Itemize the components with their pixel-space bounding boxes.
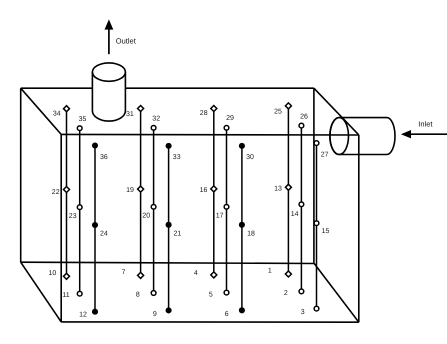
sensor 9 (filled)	[153, 307, 172, 318]
svg-text:18: 18	[247, 230, 255, 237]
sensor 27 (circle)	[314, 141, 328, 159]
svg-text:35: 35	[79, 116, 87, 123]
sensor 4 (diamond)	[194, 270, 217, 278]
svg-text:22: 22	[52, 189, 60, 196]
probe line A-filled	[94, 146, 96, 312]
sensor 22 (diamond)	[52, 187, 70, 196]
front-top edge	[61, 133, 359, 136]
sensor 12 (filled)	[79, 309, 98, 319]
top-right slant edge	[314, 88, 359, 135]
probe line D-circle	[300, 126, 302, 292]
sensor 31 (diamond)	[126, 106, 144, 118]
top-left slant edge	[21, 88, 62, 134]
bottom-left slant edge	[21, 262, 62, 322]
sensor 24 (filled)	[92, 222, 108, 237]
probe line C-circle	[226, 128, 228, 293]
svg-text:36: 36	[100, 154, 108, 161]
inlet pipe cylinder	[330, 118, 395, 155]
sensor 23 (circle)	[69, 205, 82, 220]
sensor 21 (filled)	[166, 222, 182, 238]
svg-text:28: 28	[200, 110, 208, 117]
svg-text:21: 21	[174, 230, 182, 237]
sensor 3 (circle)	[301, 306, 319, 316]
svg-text:19: 19	[126, 187, 134, 194]
svg-text:6: 6	[225, 311, 229, 318]
probe line A-circle	[79, 128, 81, 294]
svg-text:24: 24	[100, 230, 108, 237]
svg-text:3: 3	[301, 309, 305, 316]
svg-text:Inlet: Inlet	[418, 120, 433, 129]
svg-text:10: 10	[49, 270, 57, 277]
svg-text:30: 30	[246, 154, 254, 161]
front-bottom edge	[61, 321, 359, 323]
svg-text:Outlet: Outlet	[116, 37, 137, 46]
probe line B-filled	[168, 146, 170, 311]
sensor 26 (circle)	[299, 114, 308, 128]
back-top edge	[21, 87, 314, 89]
sensor 13 (diamond)	[274, 184, 291, 192]
inlet arrow	[401, 130, 447, 138]
bottom-right slant edge	[314, 264, 359, 323]
sensor 18 (filled)	[239, 222, 255, 238]
svg-text:14: 14	[291, 211, 299, 218]
svg-text:16: 16	[200, 187, 208, 194]
svg-text:17: 17	[216, 212, 224, 219]
sensor 11 (circle)	[62, 291, 82, 299]
svg-text:31: 31	[126, 111, 134, 118]
sensor 8 (circle)	[136, 291, 156, 299]
probe line D-circle2	[316, 143, 318, 309]
sensor 20 (circle)	[142, 204, 156, 219]
probe line B-diamond	[140, 109, 142, 276]
sensor 10 (diamond)	[49, 270, 70, 279]
back-bottom edge	[21, 262, 315, 263]
sensor 36 (filled)	[92, 142, 108, 161]
svg-text:9: 9	[153, 311, 157, 318]
sensor 15 (circle)	[314, 221, 329, 235]
svg-text:29: 29	[226, 115, 234, 122]
sensor 17 (circle)	[216, 204, 229, 219]
outlet pipe cylinder	[92, 63, 125, 121]
svg-text:7: 7	[122, 269, 126, 276]
svg-text:13: 13	[274, 186, 282, 193]
sensor 32 (circle)	[151, 115, 160, 130]
sensor 5 (circle)	[209, 290, 229, 298]
svg-text:2: 2	[284, 290, 288, 297]
sensor 30 (filled)	[239, 143, 254, 161]
sensor 25 (diamond)	[274, 103, 291, 116]
probe line A-diamond	[66, 109, 68, 277]
sensor 33 (filled)	[166, 143, 181, 161]
sensor 2 (circle)	[284, 289, 304, 297]
sensor 35 (circle)	[77, 116, 86, 131]
sensor 28 (diamond)	[200, 106, 217, 118]
front-right edge	[358, 135, 360, 322]
probe line D-diamond	[287, 106, 289, 274]
sensor 16 (diamond)	[200, 186, 217, 194]
svg-text:15: 15	[322, 228, 330, 235]
sensor 14 (circle)	[291, 202, 304, 218]
svg-text:34: 34	[53, 110, 61, 117]
sensor 6 (filled)	[225, 307, 245, 318]
svg-text:25: 25	[274, 108, 282, 115]
svg-text:1: 1	[268, 268, 272, 275]
svg-text:8: 8	[136, 291, 140, 298]
probe line C-diamond	[213, 109, 215, 275]
outlet arrow	[105, 19, 114, 54]
svg-text:5: 5	[209, 292, 213, 299]
svg-text:12: 12	[79, 312, 87, 319]
sensor 7 (diamond)	[122, 269, 144, 278]
front-left edge	[60, 134, 62, 322]
svg-text:4: 4	[194, 270, 198, 277]
svg-text:11: 11	[62, 292, 69, 299]
svg-text:27: 27	[321, 152, 329, 159]
back-right edge	[313, 88, 315, 263]
svg-text:20: 20	[142, 212, 150, 219]
svg-text:23: 23	[69, 213, 77, 220]
sensor 34 (diamond)	[53, 106, 70, 118]
sensor 19 (diamond)	[126, 186, 143, 194]
probe line C-filled	[241, 146, 243, 310]
svg-text:33: 33	[173, 154, 181, 161]
svg-text:26: 26	[300, 114, 308, 121]
sensor 1 (diamond)	[268, 268, 292, 277]
svg-text:32: 32	[152, 115, 160, 122]
probe line B-circle	[153, 128, 155, 293]
sensor 29 (circle)	[224, 115, 234, 130]
back-left edge	[20, 88, 22, 262]
